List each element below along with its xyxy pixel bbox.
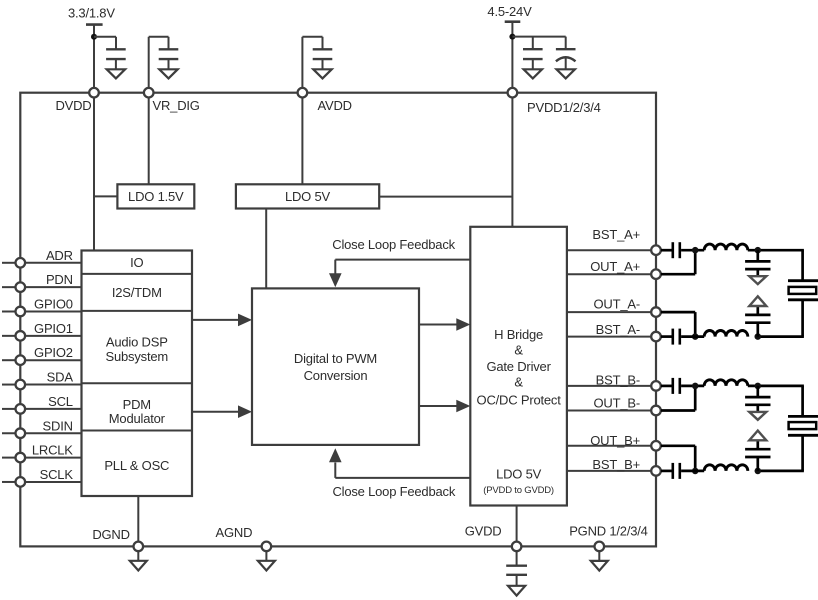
svg-text:ADR: ADR xyxy=(46,248,73,263)
speaker feed wire B bottom xyxy=(758,435,804,471)
svg-text:Modulator: Modulator xyxy=(109,411,166,426)
block IO / I2S/TDM / Audio DSP Subsystem / PDM Modulator / PLL & OSC xyxy=(82,251,193,497)
wire VR_DIG from pin to LDO 1.5V top xyxy=(148,98,150,185)
block U2 Digital to PWM Conversion xyxy=(252,288,419,445)
speaker feed wire A bottom xyxy=(758,300,804,337)
pin BST_A- terminal xyxy=(651,332,661,342)
label Close Loop Feedback (lower) xyxy=(332,484,455,499)
pin ADR with external stub and wire into IO block xyxy=(2,248,82,268)
svg-text:OUT_A-: OUT_A- xyxy=(594,297,640,312)
ground above CA2 (mirrored) xyxy=(749,296,766,306)
arrow PWM block to H Bridge (lower) xyxy=(419,400,470,413)
ground below CA1 xyxy=(749,276,766,284)
junction node B upper-right xyxy=(755,383,762,390)
wire A upper node to speaker xyxy=(748,249,804,252)
pin PDN with external stub and wire into IO block xyxy=(2,272,82,292)
filter inductor LB1 xyxy=(704,380,748,386)
block U3 H Bridge / Gate Driver / OC-DC Protect with internal LDO 5V xyxy=(470,227,567,506)
bootstrap capacitor C_BSTB2 (series) xyxy=(661,463,704,479)
pin VR_DIG xyxy=(144,88,200,113)
wire B upper node to speaker xyxy=(748,385,804,388)
svg-text:SCL: SCL xyxy=(48,394,73,409)
svg-text:IO: IO xyxy=(130,255,143,270)
svg-text:LRCLK: LRCLK xyxy=(32,443,73,458)
filter inductor LB2 xyxy=(704,465,748,471)
bootstrap capacitor C_BSTA1 (series) xyxy=(661,242,704,258)
power tap 3.3/1.8V xyxy=(86,25,103,89)
pin SCLK with external stub and wire into IO block xyxy=(2,467,82,487)
svg-text:Close Loop Feedback: Close Loop Feedback xyxy=(332,237,455,252)
power tap 4.5-24V xyxy=(505,22,521,89)
junction node B upper-left xyxy=(692,383,699,390)
svg-text:BST_B-: BST_B- xyxy=(596,373,640,388)
pin OUT_A- wire from H Bridge xyxy=(567,297,652,313)
svg-text:LDO 5V: LDO 5V xyxy=(496,467,542,482)
pin DGND with ground xyxy=(92,527,146,571)
speaker feed wire A top xyxy=(801,250,804,281)
ground below C1 xyxy=(107,69,125,78)
wire OUTA lower to filter node xyxy=(661,312,695,337)
block U5 LDO 5V regulator xyxy=(236,184,379,208)
filter inductor LA2 xyxy=(704,330,748,336)
speaker feed wire B top xyxy=(801,386,804,417)
svg-text:GPIO1: GPIO1 xyxy=(34,321,73,336)
wire LDO 5V output to PVDD column xyxy=(379,196,512,198)
pin BST_B- terminal xyxy=(651,381,661,391)
pin SCL with external stub and wire into IO block xyxy=(2,394,82,414)
pin SDA with external stub and wire into IO block xyxy=(2,370,82,390)
svg-text:H Bridge: H Bridge xyxy=(494,327,543,342)
pin SDIN with external stub and wire into IO block xyxy=(2,418,82,438)
supply label 3.3/1.8V xyxy=(68,6,115,21)
wire 3.3/1.8V to decoupling capacitor xyxy=(94,37,116,50)
wire close-loop feedback lower with arrow into PWM bottom xyxy=(329,448,470,478)
svg-text:SDA: SDA xyxy=(47,370,74,385)
wire DVDD net from pin down into IO block xyxy=(93,98,95,251)
wire close-loop feedback upper with arrow into PWM top xyxy=(329,260,470,288)
svg-text:AVDD: AVDD xyxy=(318,98,352,113)
pin BST_A- wire from H Bridge xyxy=(567,322,652,337)
pin BST_B+ terminal xyxy=(651,466,661,476)
bootstrap capacitor C_BSTA2 (series) xyxy=(661,329,704,345)
junction node A upper-left xyxy=(692,247,699,254)
svg-text:Close Loop Feedback: Close Loop Feedback xyxy=(332,484,455,499)
block U4 LDO 1.5V regulator xyxy=(117,184,194,208)
pin GPIO0 with external stub and wire into IO block xyxy=(2,297,82,317)
pin GPIO2 with external stub and wire into IO block xyxy=(2,345,82,365)
svg-text:OUT_B-: OUT_B- xyxy=(594,396,640,411)
svg-text:PDM: PDM xyxy=(123,397,151,412)
pin BST_A+ wire from H Bridge xyxy=(567,227,652,250)
svg-text:GVDD: GVDD xyxy=(465,523,502,538)
svg-text:GPIO2: GPIO2 xyxy=(34,345,73,360)
svg-text:BST_B+: BST_B+ xyxy=(592,457,640,472)
svg-text:GPIO0: GPIO0 xyxy=(34,297,73,312)
wire LDO 5V output down to Digital-to-PWM block xyxy=(265,209,267,289)
wire OUTB upper to filter node xyxy=(661,386,695,411)
svg-text:3.3/1.8V: 3.3/1.8V xyxy=(68,6,115,21)
speaker SPKB (piezo load) xyxy=(788,416,818,435)
filter inductor LA1 xyxy=(704,244,748,250)
ground below C5 xyxy=(557,69,575,78)
decoupling capacitor C2 xyxy=(159,49,179,69)
junction node A lower-right xyxy=(755,333,762,340)
pin GVDD with decoupling capacitor C6 and ground xyxy=(465,523,527,595)
svg-text:OUT_A+: OUT_A+ xyxy=(590,259,640,274)
filter capacitor CB2 to ground xyxy=(745,440,770,471)
svg-text:LDO 5V: LDO 5V xyxy=(285,189,331,204)
wire PVDD from pin to H Bridge top xyxy=(511,98,513,227)
svg-text:I2S/TDM: I2S/TDM xyxy=(112,285,162,300)
arrow PWM block to H Bridge (upper) xyxy=(419,318,470,331)
pin BST_A+ terminal xyxy=(651,245,661,255)
bootstrap capacitor C_BSTB1 (series) xyxy=(661,378,704,394)
wire VR_DIG to decoupling capacitor xyxy=(149,37,169,88)
wire GVDD from H Bridge bottom to pin xyxy=(516,506,518,543)
arrow IO block to PWM block (upper) xyxy=(192,314,252,327)
chip boundary outline xyxy=(20,93,656,547)
junction node B lower-right xyxy=(755,468,762,475)
svg-text:BST_A-: BST_A- xyxy=(596,322,640,337)
ground below C3 xyxy=(313,69,331,78)
pin BST_B- wire from H Bridge xyxy=(567,373,652,388)
filter capacitor CA1 to ground xyxy=(745,250,770,276)
svg-text:Digital to PWM: Digital to PWM xyxy=(294,351,377,366)
pin GPIO1 with external stub and wire into IO block xyxy=(2,321,82,341)
ground above CB2 (mirrored) xyxy=(749,431,766,441)
ground below CB1 xyxy=(749,412,766,420)
supply label 4.5-24V xyxy=(487,4,532,19)
polarized bulk capacitor C5 xyxy=(556,49,576,69)
junction node B lower-left xyxy=(692,468,699,475)
svg-text:(PVDD to GVDD): (PVDD to GVDD) xyxy=(483,485,554,496)
svg-text:Gate Driver: Gate Driver xyxy=(486,359,551,374)
pin BST_B+ wire from H Bridge xyxy=(567,457,652,472)
junction node A lower-left xyxy=(692,333,699,340)
wire OUTA upper to filter node xyxy=(661,250,695,274)
wire AVDD to decoupling capacitor xyxy=(302,37,322,88)
pin PGND 1/2/3/4 with ground xyxy=(569,523,648,570)
decoupling capacitor C4 xyxy=(523,49,543,69)
svg-text:AGND: AGND xyxy=(216,525,253,540)
svg-text:PDN: PDN xyxy=(46,272,73,287)
pin OUT_A- terminal xyxy=(651,307,661,317)
svg-text:OC/DC Protect: OC/DC Protect xyxy=(477,392,562,407)
filter capacitor CA2 to ground xyxy=(745,306,770,337)
wire 4.5-24V to decoupling capacitors xyxy=(512,37,565,50)
pin OUT_B- terminal xyxy=(651,406,661,416)
svg-text:SDIN: SDIN xyxy=(43,418,73,433)
ground below C4 xyxy=(524,69,542,78)
junction node A upper-right xyxy=(755,247,762,254)
wire DGND from PLL block bottom to pin xyxy=(137,496,139,542)
svg-text:Audio DSP: Audio DSP xyxy=(106,334,168,349)
svg-text:&: & xyxy=(514,343,523,358)
pin OUT_B+ wire from H Bridge xyxy=(567,433,652,448)
pin OUT_A+ wire from H Bridge xyxy=(567,259,652,274)
pin AGND with ground xyxy=(216,525,275,570)
decoupling capacitor C1 xyxy=(106,49,126,69)
wire AVDD from pin to LDO 5V top xyxy=(301,98,303,185)
svg-text:DVDD: DVDD xyxy=(55,98,91,113)
pin PVDD1/2/3/4 xyxy=(508,88,601,115)
svg-text:VR_DIG: VR_DIG xyxy=(153,98,200,113)
speaker SPKA (piezo load) xyxy=(788,281,818,300)
pin LRCLK with external stub and wire into IO block xyxy=(2,443,82,463)
svg-text:Subsystem: Subsystem xyxy=(106,349,169,364)
svg-text:4.5-24V: 4.5-24V xyxy=(487,4,532,19)
svg-text:PGND 1/2/3/4: PGND 1/2/3/4 xyxy=(569,523,648,538)
pin AVDD xyxy=(298,88,352,113)
svg-text:OUT_B+: OUT_B+ xyxy=(590,433,640,448)
filter capacitor CB1 to ground xyxy=(745,386,770,412)
decoupling capacitor C3 xyxy=(313,49,333,69)
svg-text:DGND: DGND xyxy=(92,527,129,542)
svg-text:SCLK: SCLK xyxy=(40,467,74,482)
ground below C2 xyxy=(159,69,177,78)
junction on 3.3/1.8V feed xyxy=(91,34,97,40)
svg-text:Conversion: Conversion xyxy=(304,368,368,383)
svg-text:&: & xyxy=(514,375,523,390)
junction on 4.5-24V feed xyxy=(509,34,515,40)
svg-text:BST_A+: BST_A+ xyxy=(592,227,640,242)
svg-text:LDO 1.5V: LDO 1.5V xyxy=(128,189,184,204)
pin DVDD xyxy=(55,88,98,113)
label Close Loop Feedback (upper) xyxy=(332,237,455,252)
pin OUT_B+ terminal xyxy=(651,441,661,451)
pin OUT_B- wire from H Bridge xyxy=(567,396,652,411)
arrow IO block to PWM block (lower) xyxy=(192,405,252,418)
svg-text:PLL & OSC: PLL & OSC xyxy=(104,458,169,473)
wire OUTB lower to filter node xyxy=(661,446,695,471)
pin OUT_A+ terminal xyxy=(651,269,661,279)
svg-text:PVDD1/2/3/4: PVDD1/2/3/4 xyxy=(527,100,601,115)
wire DVDD branch to LDO 1.5V input xyxy=(93,195,117,197)
